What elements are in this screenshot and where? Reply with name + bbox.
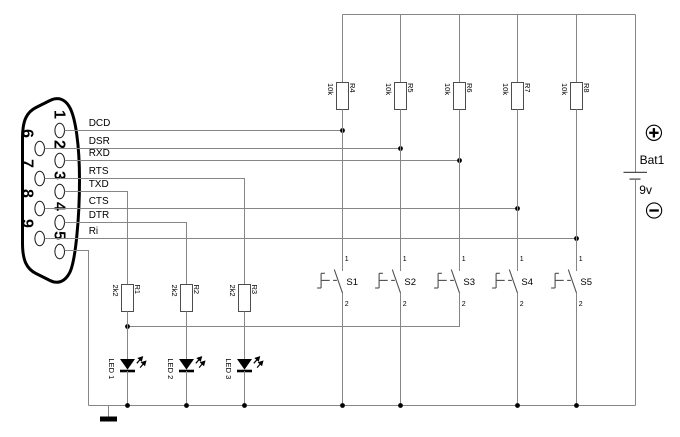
resistor R4 [337,83,349,110]
svg-text:7: 7 [19,159,36,168]
resistor R3 [239,285,251,312]
svg-text:S1: S1 [346,277,358,288]
node junction S5-rail [574,403,579,408]
svg-text:Ri: Ri [89,226,98,237]
wire R1 to LED1 [127,312,129,360]
wire DCD pin1 to S1 column [65,130,343,132]
wire R6 to switch S3 [459,110,461,272]
switch S1 [317,270,342,294]
svg-text:LED 1: LED 1 [107,358,116,379]
node junction DSR-S2 [398,146,403,151]
resistor R6 [454,83,466,110]
node junction CTS-S4 [515,206,520,211]
wire R5 to switch S2 [400,110,402,272]
svg-text:R3: R3 [250,285,259,295]
svg-text:2k2: 2k2 [111,285,120,297]
node junction LED1-rail [125,403,130,408]
switch S5 [551,270,576,294]
svg-text:2: 2 [345,301,349,308]
svg-text:8: 8 [19,189,36,198]
connector pin 3 [55,184,65,199]
wire S2 bottom to rail [400,293,402,406]
svg-text:10k: 10k [443,83,452,95]
wire rail to R4 [342,15,344,83]
LED D3 [237,359,252,370]
svg-text:R1: R1 [133,285,142,295]
wire DTR pin4 to R2 column [65,223,187,285]
svg-text:CTS: CTS [89,196,109,207]
connector pin 5 [55,244,65,259]
wire RXD pin2 to S3 column [65,160,460,162]
node junction RXD-S3 [457,158,462,163]
resistor R1 [122,285,134,312]
node junction LED3-rail [242,403,247,408]
battery Bat1 plates [624,171,648,173]
svg-text:9: 9 [19,219,36,228]
svg-text:1: 1 [403,256,407,263]
connector pin 2 [55,153,65,168]
svg-text:2: 2 [520,301,524,308]
resistor R2 [181,285,193,312]
LED D1 [120,359,135,370]
svg-text:R7: R7 [523,83,532,93]
svg-text:TXD: TXD [89,179,109,190]
connector pin 6 [35,141,45,156]
wire rail to R8 [576,15,578,83]
resistor R5 [395,83,407,110]
wire pin5 to ground rail [65,251,89,406]
wire top power rail [343,14,636,16]
node junction S3wire-R1 column [125,324,130,329]
wire rail to R7 [517,15,519,83]
svg-text:2k2: 2k2 [170,285,179,297]
node junction DCD-S1 [340,128,345,133]
svg-text:10k: 10k [326,83,335,95]
battery minus symbol [647,203,662,218]
svg-text:RXD: RXD [89,148,110,159]
svg-text:10k: 10k [560,83,569,95]
svg-text:DSR: DSR [89,136,110,147]
battery Bat1 top wire [635,15,637,173]
svg-text:S4: S4 [521,277,533,288]
svg-text:R5: R5 [406,83,415,93]
wire R4 to switch S1 [342,110,344,272]
svg-text:10k: 10k [501,83,510,95]
svg-text:2: 2 [51,140,68,149]
svg-text:1: 1 [51,110,68,119]
switch S3 [434,270,459,294]
wire Ri pin9 to S5 column [45,238,577,240]
wire S3 bottom to LED1 column [128,293,460,327]
connector J1 shell [23,99,80,283]
switch S4 [492,270,517,294]
svg-text:Bat1: Bat1 [640,153,665,167]
svg-text:S2: S2 [404,277,416,288]
node junction S2-rail [398,403,403,408]
svg-text:DTR: DTR [89,210,110,221]
wire RTS pin7 to R3 column [45,179,245,285]
svg-text:1: 1 [579,256,583,263]
svg-text:S3: S3 [463,277,475,288]
wire R3 to LED3 [244,312,246,360]
wire bottom ground rail [89,405,636,407]
wire S5 bottom to rail [576,293,578,406]
svg-text:10k: 10k [384,83,393,95]
wire S4 bottom to rail [517,293,519,406]
wire S1 bottom to rail [342,293,344,406]
svg-text:2: 2 [462,301,466,308]
connector pin 7 [35,171,45,186]
node junction Ri-S5 [574,236,579,241]
battery plus symbol [646,125,661,140]
wire LED1 to rail [127,371,129,406]
connector pin 1 [55,123,65,138]
svg-text:1: 1 [462,256,466,263]
svg-text:R4: R4 [348,83,357,93]
wire R2 to LED2 [186,312,188,360]
wire R7 to switch S4 [517,110,519,272]
node junction S4-rail [515,403,520,408]
resistor R8 [571,83,583,110]
svg-text:R2: R2 [192,285,201,295]
wire LED2 to rail [186,371,188,406]
connector pin 9 [35,231,45,246]
svg-text:R8: R8 [582,83,591,93]
connector pin 8 [35,201,45,216]
wire rail to R6 [459,15,461,83]
LED D2 [179,359,194,370]
svg-text:2: 2 [579,301,583,308]
svg-text:RTS: RTS [89,166,109,177]
wire LED3 to rail [244,371,246,406]
wire R8 to switch S5 [576,110,578,272]
svg-text:DCD: DCD [89,118,111,129]
svg-text:S5: S5 [580,277,592,288]
wire TXD pin3 to R1 column [65,192,128,285]
connector pin 4 [55,215,65,230]
svg-text:LED 3: LED 3 [224,358,233,379]
ground symbol [108,406,110,417]
svg-text:9v: 9v [639,183,652,197]
switch S2 [375,270,400,294]
resistor R7 [512,83,524,110]
wire CTS pin8 to S4 column [45,208,518,210]
node junction LED2-rail [184,403,189,408]
node junction S1-rail [340,403,345,408]
battery Bat1 bottom wire [635,179,637,405]
svg-text:1: 1 [520,256,524,263]
svg-text:LED 2: LED 2 [166,358,175,379]
wire rail to R5 [400,15,402,83]
svg-text:1: 1 [345,256,349,263]
svg-text:R6: R6 [465,83,474,93]
svg-text:2k2: 2k2 [228,285,237,297]
svg-text:4: 4 [51,202,68,211]
svg-text:2: 2 [403,301,407,308]
wire DSR pin6 to S2 column [45,148,401,150]
svg-text:6: 6 [19,129,36,138]
